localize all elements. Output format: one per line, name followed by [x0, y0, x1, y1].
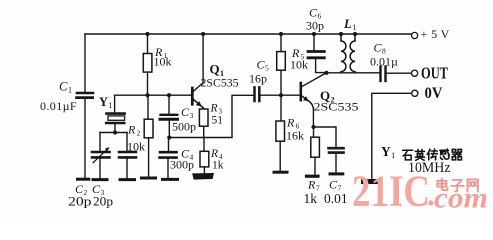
svg-text:500p: 500p	[172, 120, 196, 134]
svg-text:Y: Y	[381, 144, 391, 159]
svg-text:0.01µ: 0.01µ	[370, 55, 398, 69]
svg-text:0.01µF: 0.01µF	[40, 99, 77, 113]
svg-text:C: C	[59, 80, 68, 94]
svg-text:R: R	[210, 103, 218, 115]
svg-text:L: L	[343, 17, 352, 31]
svg-text:20p: 20p	[93, 194, 113, 208]
svg-text:1k: 1k	[212, 160, 224, 172]
svg-text:R: R	[286, 116, 295, 130]
svg-text:+ 5 V: + 5 V	[421, 27, 450, 41]
svg-text:10k: 10k	[154, 55, 172, 69]
svg-text:R: R	[127, 123, 136, 137]
svg-text:2SC535: 2SC535	[201, 76, 239, 90]
svg-text:Y: Y	[99, 95, 108, 109]
svg-text:20p: 20p	[68, 194, 92, 208]
svg-text:30p: 30p	[306, 19, 324, 33]
svg-text:OUT: OUT	[421, 64, 448, 83]
svg-text:Q: Q	[210, 62, 220, 77]
svg-text:2: 2	[137, 129, 141, 138]
svg-text:0V: 0V	[425, 85, 443, 102]
svg-text:16k: 16k	[286, 129, 304, 143]
svg-text:1: 1	[353, 23, 357, 32]
svg-text:10k: 10k	[290, 58, 308, 72]
svg-text:1: 1	[68, 86, 72, 95]
svg-text:51: 51	[212, 115, 224, 127]
svg-text:1k: 1k	[304, 191, 318, 206]
svg-text:16p: 16p	[249, 72, 267, 86]
svg-text:21IC: 21IC	[352, 167, 430, 216]
svg-text:R: R	[210, 148, 218, 160]
svg-text:1: 1	[391, 150, 395, 160]
svg-text:0.01: 0.01	[324, 191, 348, 206]
svg-text:2SC535: 2SC535	[314, 100, 359, 114]
svg-text:10k: 10k	[127, 140, 145, 154]
svg-text:R: R	[307, 178, 316, 192]
svg-text:1: 1	[109, 101, 113, 110]
svg-text:300p: 300p	[170, 158, 194, 172]
